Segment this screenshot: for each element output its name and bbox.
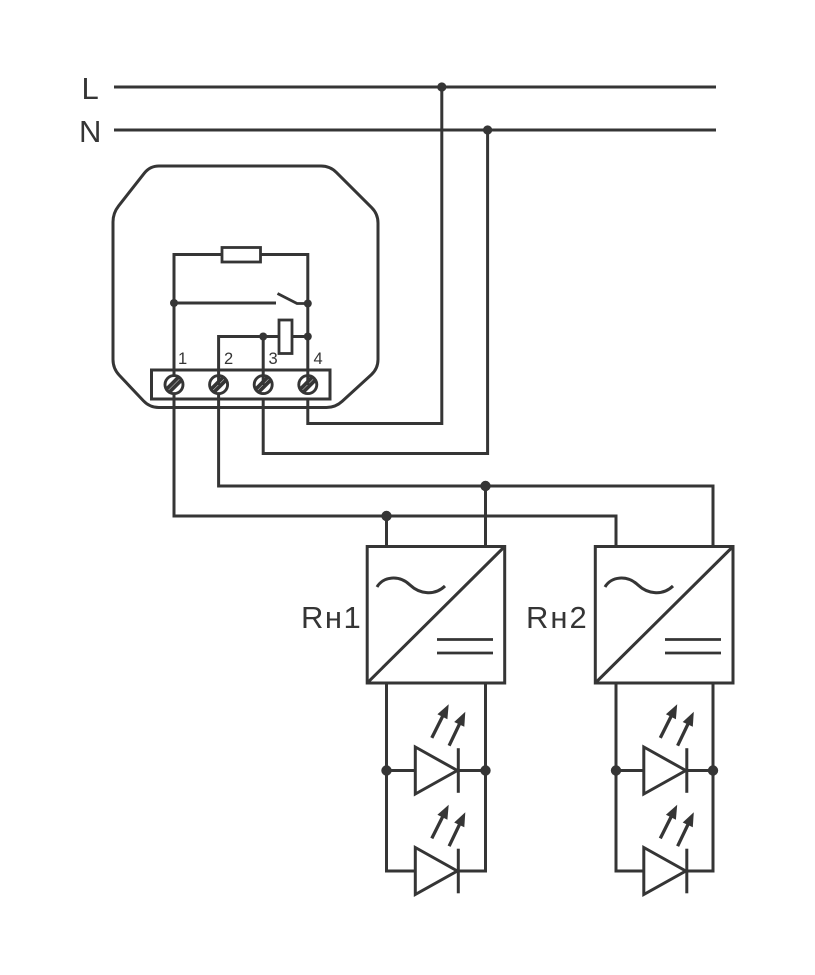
wire right vertical to terminal 4 <box>306 304 309 386</box>
wire LED D1 anode <box>387 769 416 772</box>
junction on L <box>437 82 446 91</box>
wire converter 1 right input <box>484 486 487 547</box>
LED D3 <box>644 704 694 794</box>
LED D1 <box>415 704 465 794</box>
wire chain 1 left rail <box>387 683 416 871</box>
junction chain 1 right <box>480 765 490 775</box>
junction terminal 3 riser top <box>259 333 267 341</box>
svg-text:3: 3 <box>269 350 278 368</box>
wire resistor top loop <box>174 255 222 304</box>
device enclosure outline <box>113 166 378 408</box>
converter U1 box <box>367 547 505 684</box>
terminal block <box>152 370 331 399</box>
junction converter 1 right feed <box>480 481 490 491</box>
junction chain 2 left <box>611 765 621 775</box>
wire chain 2 right rail <box>687 683 713 871</box>
wire LED D3 anode <box>616 769 644 772</box>
terminal screw 1 <box>165 376 183 394</box>
wire resistor right to switch vertical <box>261 255 308 304</box>
wire terminal 2 to converters rail <box>219 394 713 547</box>
wire N drop to terminal 3 <box>263 130 487 454</box>
junction chain 2 right <box>708 765 718 775</box>
junction fuse node <box>304 333 312 341</box>
converter U2 DC lines <box>665 638 721 641</box>
svg-text:2: 2 <box>224 350 233 368</box>
wire L drop to terminal 4 <box>308 87 442 424</box>
converter U1 AC sine <box>377 578 445 593</box>
terminal screw 3 <box>254 376 272 394</box>
LED D4 <box>644 805 694 895</box>
wire switch fixed lead <box>174 302 276 305</box>
wire fuse to node <box>292 335 308 338</box>
junction switch right <box>304 300 312 308</box>
svg-text:4: 4 <box>314 350 323 368</box>
converter U2 diagonal <box>595 547 733 684</box>
wire converter 1 left input <box>385 516 388 547</box>
wire chain 2 left rail <box>616 683 644 871</box>
junction on N <box>483 125 492 134</box>
wire terminal 3 riser <box>262 337 265 386</box>
wire terminal 2 riser <box>219 337 279 386</box>
wire L line <box>114 86 716 89</box>
fuse F1 <box>279 320 292 354</box>
junction converter 1 left feed <box>381 511 391 521</box>
svg-text:Rн2: Rн2 <box>526 600 589 635</box>
wire chain 1 right rail <box>458 683 485 871</box>
LED D2 <box>415 805 465 895</box>
wire LED D1 cathode <box>458 769 485 772</box>
wire terminal 1 to converters rail <box>174 394 616 547</box>
wire terminal 1 internal riser <box>173 255 176 377</box>
wire N line <box>114 129 716 132</box>
svg-text:1: 1 <box>178 350 187 368</box>
junction switch left <box>170 299 178 307</box>
resistor R1 <box>222 248 261 263</box>
svg-text:L: L <box>82 71 99 106</box>
converter U2 box <box>595 547 733 684</box>
switch S1 blade <box>278 294 308 304</box>
wire LED D3 cathode <box>687 769 713 772</box>
converter U1 DC lines <box>437 638 493 641</box>
terminal screw 4 <box>299 376 317 394</box>
converter U1 diagonal <box>367 547 505 684</box>
terminal screw 2 <box>210 376 228 394</box>
converter U2 AC sine <box>605 578 673 593</box>
svg-text:Rн1: Rн1 <box>301 600 362 635</box>
junction chain 1 left <box>381 765 391 775</box>
svg-text:N: N <box>79 114 101 149</box>
